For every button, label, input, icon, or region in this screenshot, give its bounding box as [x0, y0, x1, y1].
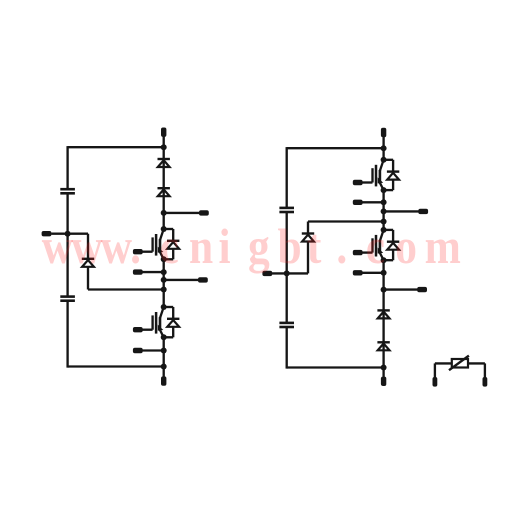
collector lead of Q2 [160, 307, 164, 318]
node emitter-aux Q1 [161, 269, 167, 275]
wire collector aux tap [164, 212, 200, 214]
terminal E3 aux (right module) [353, 200, 363, 205]
emitter lead of Q4 [380, 253, 384, 260]
gate terminal of Q3 [353, 180, 363, 185]
body bar of Q1 [159, 239, 162, 253]
wire top bus left module [68, 146, 164, 148]
wire phase tap lower (right module) [384, 288, 418, 290]
wire dc-link rail lower (right module) [286, 327, 288, 369]
diode D9 [377, 309, 389, 311]
emitter node of Q3 [381, 187, 387, 193]
terminal C1 aux (left module) [199, 210, 209, 215]
wire clamp bottom (left module) [87, 267, 89, 290]
wire clamp riser (right module) [307, 242, 309, 274]
capacitor C1 [60, 188, 75, 191]
terminal T1 (left module midpoint input) [42, 231, 52, 236]
wire top bus right module [287, 147, 384, 149]
gate lead wire of Q2 [142, 329, 152, 331]
terminal P1 (left module DC+ top) [161, 128, 166, 137]
anti-parallel diode of Q1 [164, 228, 174, 230]
node phase tap lower (right module) [381, 287, 387, 293]
collector node of Q1 [161, 226, 167, 232]
wire dc-link rail lower (left module) [66, 301, 68, 368]
terminal AC3 (right module) [417, 287, 427, 292]
node midpoint (right module) [284, 270, 290, 276]
node phase tap (left module) [161, 277, 167, 283]
node emitter-aux Q2 [161, 348, 167, 354]
gate bar of Q2 [155, 312, 158, 334]
anti-parallel diode of Q2 [164, 306, 174, 308]
node top-right module [381, 145, 387, 151]
emitter arrow of Q2 [158, 325, 164, 331]
diode D10 [377, 341, 389, 343]
wire main rail middle (right module) [382, 190, 384, 230]
wire main rail upper (left module) [163, 147, 165, 229]
wire dc-link rail middle (right module) [286, 212, 288, 323]
terminal T2 (right module midpoint input) [262, 271, 272, 276]
wire dc-link rail middle (left module) [66, 193, 68, 296]
wire main rail middle (left module) [163, 259, 165, 307]
terminal P3 (right module DC+ top) [381, 128, 386, 137]
anti-parallel diode of Q4 [384, 229, 394, 231]
wire clamp top (left module) [68, 233, 88, 235]
wire bottom bus right module [287, 366, 384, 368]
terminal E1 aux (left module) [133, 269, 143, 274]
collector node of Q2 [161, 304, 167, 310]
gate lead wire of Q4 [362, 251, 372, 253]
wire emitter aux Q2 [142, 349, 164, 351]
wire T1 to dc-link rail [51, 233, 67, 235]
wire dc-link rail upper (right module) [286, 147, 288, 208]
wire dc-link rail upper (left module) [66, 146, 68, 189]
wire main rail lower (left module) [163, 337, 165, 377]
gate lead wire of Q3 [362, 181, 372, 183]
wire emitter aux Q3 [362, 201, 384, 203]
node emitter-aux Q4 [381, 270, 387, 276]
node midpoint (left module) [65, 231, 71, 237]
wire T2 to clamp (right module) [272, 272, 308, 274]
emitter arrow of Q3 [378, 177, 384, 183]
node clamp tap (right module) [381, 219, 387, 225]
gate lead wire of Q1 [142, 251, 152, 253]
emitter arrow of Q1 [158, 247, 164, 253]
diode D2 [158, 187, 170, 189]
emitter lead of Q1 [160, 252, 164, 259]
emitter node of Q1 [161, 256, 167, 262]
gate bar of Q4 [375, 235, 378, 257]
wire P3 to top node [382, 137, 384, 160]
body bar of Q2 [159, 317, 162, 331]
diode D1 [158, 158, 170, 160]
terminal RT1 right [483, 377, 488, 387]
collector node of Q3 [381, 157, 387, 163]
node clamp return (left module) [161, 287, 167, 293]
collector lead of Q1 [160, 229, 164, 240]
gate terminal of Q2 [133, 327, 143, 332]
emitter node of Q4 [381, 257, 387, 263]
wire phase tap upper (right module) [384, 210, 419, 212]
thermistor RT1 body [452, 359, 468, 368]
node bottom (left module) [161, 364, 167, 370]
wire P1 to top node [163, 137, 165, 149]
terminal AC2 (right module) [418, 209, 428, 214]
gate bar of Q3 [375, 165, 378, 187]
terminal P2 (left module DC- bottom) [161, 376, 166, 385]
gate terminal of Q1 [133, 249, 143, 254]
node top-left module [161, 144, 167, 150]
anti-parallel diode of Q3 [384, 159, 394, 161]
terminal E2 aux (left module) [133, 348, 143, 353]
emitter lead of Q2 [160, 330, 164, 337]
emitter lead of Q3 [380, 183, 384, 190]
terminal AC1 (left module) [198, 277, 208, 282]
clamp diode D3 [82, 258, 94, 260]
wire bottom bus left module [68, 365, 164, 367]
terminal RT1 left [433, 377, 438, 387]
clamp diode D8 [302, 232, 314, 234]
terminal E4 aux (right module) [353, 270, 363, 275]
wire main rail lower (right module) [382, 260, 384, 377]
capacitor C3 [279, 207, 294, 210]
gate terminal of Q4 [353, 250, 363, 255]
capacitor C4 [279, 322, 294, 325]
collector lead of Q4 [380, 230, 384, 241]
emitter arrow of Q4 [378, 248, 384, 254]
body bar of Q3 [379, 170, 382, 184]
capacitor C2 [60, 295, 75, 298]
node phase tap upper (right module) [381, 208, 387, 214]
wire phase tap (left module) [164, 279, 199, 281]
gate bar of Q1 [155, 234, 158, 256]
wire RT1 left lead [434, 363, 436, 377]
thermistor RT1 diagonal stroke [449, 356, 469, 371]
wire clamp top (right module) [307, 222, 309, 234]
terminal P4 (right module DC- bottom) [381, 377, 386, 386]
wire emitter aux Q4 [362, 272, 383, 274]
node bottom (right module) [381, 365, 387, 371]
wire RT1 right lead [468, 362, 485, 364]
emitter node of Q2 [161, 334, 167, 340]
collector lead of Q3 [380, 160, 384, 171]
wire emitter aux Q1 [142, 271, 164, 273]
node emitter-aux Q3 [381, 199, 387, 205]
svg-text:www.cnigbt.com: www.cnigbt.com [42, 219, 461, 274]
collector node of Q4 [381, 227, 387, 233]
body bar of Q4 [379, 240, 382, 254]
node collector-aux tap [161, 210, 167, 216]
